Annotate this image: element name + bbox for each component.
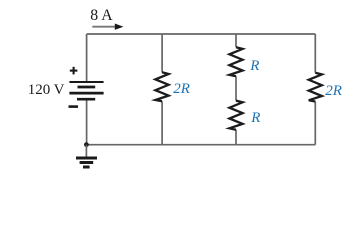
wire bottom horizontal bbox=[86, 144, 315, 146]
ground bbox=[76, 158, 97, 167]
svg-text:8 A: 8 A bbox=[90, 7, 113, 24]
svg-text:R: R bbox=[250, 110, 260, 126]
wire right rail bottom bbox=[314, 102, 316, 145]
wire middle branch top bbox=[235, 34, 237, 47]
svg-text:2R: 2R bbox=[325, 83, 342, 99]
wire branch 2R left bottom bbox=[161, 101, 163, 144]
wire right rail top bbox=[314, 34, 316, 73]
resistor 2R (right branch) bbox=[309, 73, 322, 102]
wire left rail (battery branch) bbox=[86, 34, 88, 81]
resistor R (middle top) bbox=[229, 47, 242, 76]
wire top horizontal bbox=[87, 33, 316, 35]
battery E 120 V bbox=[69, 82, 103, 99]
resistor R (middle bottom) bbox=[229, 101, 242, 130]
wire battery bottom to node A bbox=[86, 98, 88, 145]
wire middle branch between R and R bbox=[235, 76, 237, 100]
svg-text:120 V: 120 V bbox=[28, 82, 65, 98]
battery plus sign bbox=[70, 67, 78, 75]
svg-text:2R: 2R bbox=[173, 81, 190, 97]
svg-text:R: R bbox=[249, 58, 259, 74]
battery minus sign bbox=[69, 105, 79, 108]
wire middle branch bottom bbox=[235, 130, 237, 145]
node A junction dot bbox=[84, 142, 89, 147]
resistor 2R (left branch) bbox=[155, 72, 168, 101]
wire branch 2R left top bbox=[161, 34, 163, 72]
wire node A to ground bbox=[85, 145, 87, 157]
current arrow 8 A bbox=[92, 24, 123, 30]
